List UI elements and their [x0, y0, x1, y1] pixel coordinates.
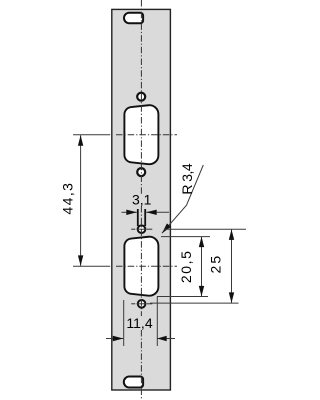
arrow 3,1 right	[146, 210, 157, 215]
vertical centerline	[140, 0, 142, 194]
panel plate	[112, 9, 171, 390]
svg-text:3,1: 3,1	[132, 192, 152, 208]
extension 25 top	[164, 228, 246, 230]
dimension 44,3 line	[80, 135, 82, 266]
extension 11,4 right	[156, 297, 158, 347]
hole upper d-sub top	[137, 93, 145, 101]
dimension 11,4 line left	[106, 338, 123, 340]
extension 20,5 top	[161, 236, 210, 238]
arrow 44,3 top	[78, 135, 83, 146]
bottom hole	[138, 300, 146, 308]
arrow 11,4 left	[113, 336, 124, 341]
dimension 3,1 line left	[122, 211, 137, 213]
bottom mounting slot	[124, 377, 143, 388]
leader R 3,4	[162, 165, 203, 233]
svg-text:44,3: 44,3	[60, 182, 76, 215]
lower d-sub cutout	[124, 237, 158, 296]
arrow 11,4 right	[157, 336, 167, 341]
keyhole circle	[138, 225, 146, 233]
svg-text:20,5: 20,5	[178, 249, 194, 283]
arrow 25 bottom	[229, 292, 234, 303]
dimension 25 line	[231, 229, 233, 303]
svg-text:25: 25	[207, 254, 223, 274]
extension 20,5 bottom	[157, 296, 208, 298]
arrow 20,5 top	[199, 237, 204, 248]
svg-text:R 3,4: R 3,4	[179, 163, 195, 194]
horizontal centerline upper d-sub	[73, 134, 110, 136]
arrow 20,5 bottom	[199, 286, 204, 297]
hole upper d-sub bottom	[137, 168, 145, 176]
upper d-sub cutout	[124, 105, 158, 164]
keyhole slot walls	[137, 209, 139, 226]
extension 11,4 left	[123, 300, 125, 346]
horizontal centerline lower d-sub	[73, 265, 110, 267]
arrow 25 top	[229, 229, 234, 240]
arrow 44,3 bottom	[78, 255, 83, 266]
vertical centerline (below 11,4 text)	[140, 330, 142, 399]
dimension 3,1 line right	[146, 211, 169, 213]
dimension 20,5 line	[201, 237, 203, 297]
arrow R 3,4	[162, 223, 171, 233]
vertical centerline (lower part)	[140, 206, 142, 316]
crosshair keyhole	[131, 228, 135, 230]
arrow 3,1 left	[126, 210, 137, 215]
dimension 11,4 line right	[157, 338, 175, 340]
extension 25 bottom	[150, 302, 239, 304]
top mounting slot	[124, 13, 143, 24]
crosshair bottom hole	[131, 303, 135, 305]
svg-text:11,4: 11,4	[126, 315, 152, 331]
